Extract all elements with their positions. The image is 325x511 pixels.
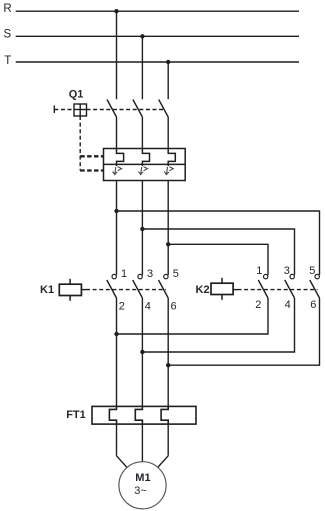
svg-text:4: 4: [285, 299, 291, 311]
svg-text:6: 6: [171, 301, 177, 313]
svg-text:Q1: Q1: [69, 88, 84, 100]
svg-text:T: T: [4, 55, 11, 67]
svg-text:2: 2: [255, 299, 261, 311]
svg-text:5: 5: [173, 268, 179, 280]
svg-text:K2: K2: [196, 284, 210, 296]
svg-text:3: 3: [147, 268, 153, 280]
svg-text:FT1: FT1: [66, 409, 86, 421]
svg-text:M1: M1: [135, 472, 150, 484]
svg-text:6: 6: [310, 299, 316, 311]
svg-text:R: R: [3, 3, 11, 15]
svg-text:S: S: [4, 29, 12, 41]
svg-text:K1: K1: [40, 284, 54, 296]
svg-text:3~: 3~: [134, 485, 147, 497]
svg-text:1: 1: [121, 268, 127, 280]
svg-text:1: 1: [256, 265, 262, 277]
svg-text:4: 4: [145, 301, 151, 313]
svg-text:3: 3: [284, 265, 290, 277]
svg-text:5: 5: [309, 265, 315, 277]
svg-text:2: 2: [119, 301, 125, 313]
